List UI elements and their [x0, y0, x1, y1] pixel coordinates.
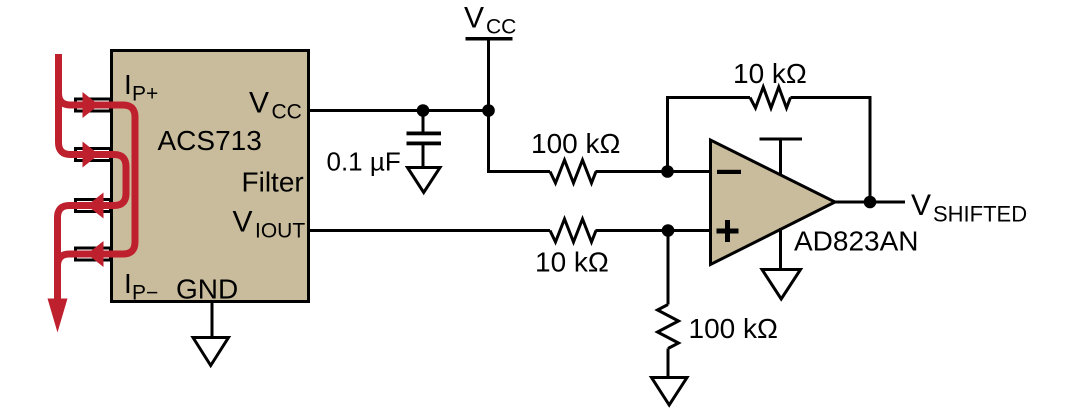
junction dot (output node) — [864, 196, 877, 209]
red arrowhead out of pin 3 — [87, 193, 104, 219]
label VSHIFTED — [911, 189, 1027, 227]
wire op-amp output — [835, 201, 905, 204]
junction dot (VCC node) — [482, 104, 495, 117]
svg-text:ACS713: ACS713 — [158, 125, 262, 156]
svg-text:GND: GND — [176, 274, 238, 305]
junction dot (minus node) — [661, 165, 674, 178]
svg-text:0.1 µF: 0.1 µF — [327, 147, 401, 177]
svg-text:IOUT: IOUT — [255, 220, 305, 243]
svg-text:Filter: Filter — [242, 167, 304, 198]
ground symbol under capacitor — [408, 168, 441, 193]
red arrowhead out of pin 4 — [87, 241, 104, 267]
op-amp U2 AD823AN triangle — [711, 140, 836, 265]
op-amp minus sign — [717, 170, 741, 174]
red arrowhead into pin 2 — [83, 142, 100, 168]
svg-text:AD823AN: AD823AN — [794, 226, 919, 257]
pin 3 stub — [76, 200, 111, 212]
pin 1 (IP+ top) stub — [76, 99, 111, 111]
svg-text:CC: CC — [272, 101, 302, 124]
svg-text:P+: P+ — [132, 83, 158, 106]
wire VCC bar down to node — [487, 39, 490, 111]
svg-text:100 kΩ: 100 kΩ — [689, 313, 778, 344]
svg-text:I: I — [124, 69, 132, 100]
svg-text:10 kΩ: 10 kΩ — [535, 247, 609, 278]
svg-text:CC: CC — [486, 16, 516, 39]
op-amp negative supply stub — [779, 228, 782, 270]
svg-text:V: V — [464, 2, 484, 35]
resistor R1 100k zigzag (minus path) — [550, 160, 596, 183]
svg-text:10 kΩ: 10 kΩ — [733, 58, 807, 89]
wire R3 to op-amp plus input — [596, 229, 711, 232]
svg-text:SHIFTED: SHIFTED — [933, 202, 1027, 227]
ground symbol under R4 — [652, 378, 688, 406]
wire R4 to ground — [667, 349, 670, 378]
label VCC (pin name) — [249, 87, 302, 124]
pin 2 stub — [76, 149, 111, 161]
red current path: branch into pin1, outer loop to pin4, merge to exit — [58, 93, 136, 299]
wire feedback loop up and over — [668, 98, 871, 203]
resistor R4 100k zigzag (pulldown) — [658, 305, 679, 349]
wire GND pin down from chip — [211, 303, 214, 338]
svg-text:V: V — [233, 206, 253, 239]
capacitor C1 bottom lead — [422, 145, 425, 168]
svg-text:P−: P− — [132, 282, 158, 305]
ground symbol under op-amp — [762, 270, 801, 300]
red exit arrowhead (down) — [48, 299, 68, 333]
op-amp plus sign — [717, 220, 739, 242]
label IP- (pin name) — [124, 268, 158, 305]
resistor R2 10k zigzag (feedback) — [750, 87, 791, 108]
wire VCC node down and right to R1 — [489, 111, 551, 172]
resistor R3 10k zigzag (plus path) — [550, 219, 596, 242]
wire VIOUT to R3 — [310, 229, 550, 232]
VCC supply symbol (bar + label) — [464, 2, 516, 39]
junction dot (cap node) — [417, 104, 430, 117]
red current path: feed, into pin2, inner loop to pin3, down to exit — [58, 54, 127, 299]
capacitor C1 0.1uF top lead — [422, 111, 425, 132]
svg-text:100 kΩ: 100 kΩ — [531, 128, 620, 159]
wire R1 to op-amp minus input — [596, 170, 711, 173]
label VIOUT (pin name) — [233, 206, 306, 243]
wire VCC pin to junctions (horizontal) — [310, 109, 489, 112]
svg-text:V: V — [249, 87, 269, 120]
op-amp positive supply bar — [760, 139, 803, 175]
svg-text:V: V — [911, 189, 931, 222]
junction dot (plus node) — [662, 224, 675, 237]
capacitor C1 plates — [407, 132, 442, 146]
svg-text:I: I — [124, 268, 132, 299]
red arrowhead into pin 1 — [83, 92, 100, 118]
pin 4 (IP- bottom) stub — [76, 248, 111, 260]
wire plus node down to R4 — [667, 231, 670, 305]
ground symbol under chip — [193, 338, 229, 366]
IC U1 ACS713 body — [112, 51, 309, 302]
label IP+ (pin name) — [124, 69, 158, 106]
